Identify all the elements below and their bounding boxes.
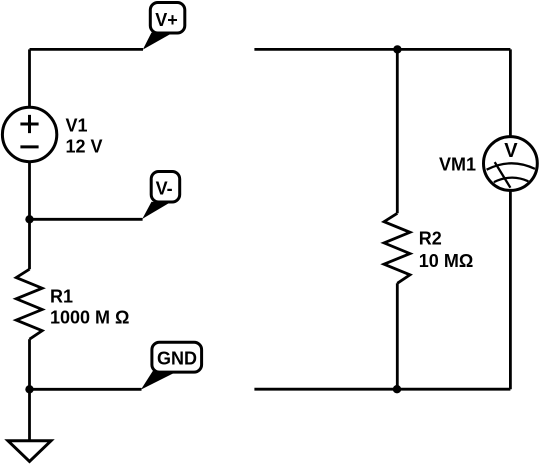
ground symbol: [8, 441, 51, 462]
wire V- horizontal: [30, 218, 143, 221]
wire right rail upper: [509, 49, 512, 135]
node junction GND: [25, 385, 33, 393]
net flag GND: [141, 342, 202, 389]
svg-text:10 MΩ: 10 MΩ: [419, 251, 473, 271]
wire R2 branch lower: [396, 283, 399, 389]
wire left rail lower: [28, 339, 31, 389]
svg-text:V-: V-: [156, 178, 173, 198]
net flag V+: [143, 3, 185, 50]
svg-text:V+: V+: [155, 10, 178, 30]
net flag V-: [142, 172, 179, 219]
voltmeter VM1: [484, 137, 538, 191]
svg-text:V1: V1: [66, 116, 88, 136]
svg-text:12 V: 12 V: [66, 137, 103, 157]
svg-text:R2: R2: [419, 228, 442, 248]
wire bottom-right horizontal: [254, 388, 510, 391]
svg-text:GND: GND: [157, 349, 197, 369]
wire to ground: [28, 389, 31, 440]
node junction R2 top: [393, 45, 401, 53]
resistor R2: [384, 213, 410, 283]
wire right rail lower: [509, 191, 512, 389]
node junction V-: [25, 215, 33, 223]
wire GND horizontal: [30, 388, 142, 391]
svg-text:VM1: VM1: [439, 155, 476, 175]
wire left rail middle: [28, 162, 31, 269]
wire R2 branch upper: [396, 49, 399, 213]
voltage source V1: [2, 107, 56, 161]
wire top-right horizontal: [254, 48, 510, 51]
svg-text:1000 M Ω: 1000 M Ω: [50, 307, 129, 327]
wire left rail upper: [28, 49, 31, 106]
wire top-left horizontal V+: [30, 48, 144, 51]
svg-text:R1: R1: [50, 286, 73, 306]
resistor R1: [16, 269, 42, 339]
node junction R2 bottom: [393, 385, 401, 393]
svg-text:V: V: [504, 140, 518, 162]
